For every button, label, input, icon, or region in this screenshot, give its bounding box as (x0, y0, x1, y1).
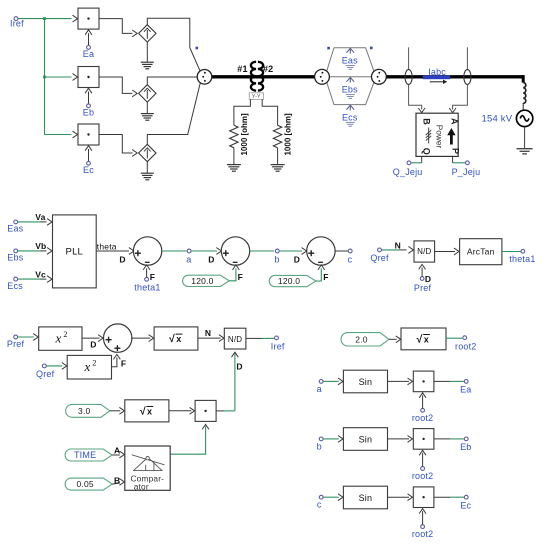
svg-text:x: x (83, 359, 90, 374)
svg-text:theta: theta (97, 242, 117, 252)
svg-text:Eas: Eas (342, 56, 358, 66)
svg-text:Eas: Eas (7, 224, 23, 234)
svg-text:P_Jeju: P_Jeju (452, 167, 481, 177)
svg-text:B: B (114, 475, 120, 485)
svg-text:Ea: Ea (83, 49, 94, 59)
svg-text:1000 [ohm]: 1000 [ohm] (240, 113, 249, 156)
svg-text:D: D (208, 254, 214, 264)
svg-text:theta1: theta1 (134, 282, 160, 292)
svg-text:√: √ (417, 334, 423, 346)
svg-text:Sin: Sin (359, 435, 373, 445)
svg-text:154 kV: 154 kV (482, 113, 513, 124)
svg-text:Ec: Ec (83, 165, 94, 175)
svg-text:Y-Y: Y-Y (252, 94, 261, 100)
svg-text:Q: Q (422, 148, 432, 155)
svg-text:a: a (317, 384, 322, 394)
svg-text:b: b (274, 254, 279, 264)
svg-text:Eb: Eb (460, 442, 471, 452)
svg-text:c: c (317, 500, 322, 510)
svg-text:P: P (451, 148, 461, 154)
svg-text:Iref: Iref (10, 19, 24, 29)
svg-text:Ebs: Ebs (7, 253, 23, 263)
svg-text:Q_Jeju: Q_Jeju (393, 167, 423, 177)
svg-text:N: N (205, 328, 211, 338)
svg-text:b: b (317, 441, 322, 451)
svg-text:root2: root2 (412, 413, 434, 423)
svg-text:D: D (236, 361, 242, 371)
svg-text:A: A (114, 445, 120, 455)
svg-text:Ecs: Ecs (7, 281, 23, 291)
svg-text:Sin: Sin (359, 493, 373, 503)
svg-text:F: F (323, 272, 328, 282)
svg-text:0.05: 0.05 (76, 479, 93, 489)
svg-text:theta1: theta1 (509, 254, 535, 264)
svg-text:2.0: 2.0 (355, 334, 367, 344)
svg-text:1000 [ohm]: 1000 [ohm] (284, 113, 293, 156)
svg-text:Va: Va (35, 212, 45, 222)
svg-text:Vb: Vb (35, 241, 46, 251)
svg-text:Pref: Pref (414, 283, 432, 293)
svg-text:#1: #1 (237, 64, 247, 74)
svg-text:D: D (294, 254, 300, 264)
svg-text:x: x (424, 334, 429, 344)
svg-text:Eb: Eb (83, 108, 94, 118)
svg-text:D: D (119, 254, 125, 264)
svg-text:Ecs: Ecs (342, 112, 358, 122)
svg-text:c: c (348, 254, 353, 264)
svg-text:root2: root2 (412, 471, 434, 481)
svg-text:root2: root2 (412, 529, 434, 539)
svg-text:#2: #2 (263, 64, 273, 74)
svg-text:√: √ (140, 405, 146, 417)
svg-text:D: D (90, 340, 96, 350)
svg-text:Pref: Pref (7, 339, 25, 349)
svg-text:Ea: Ea (460, 385, 471, 395)
svg-text:Ebs: Ebs (342, 85, 358, 95)
svg-text:N/D: N/D (417, 247, 431, 256)
svg-text:Iref: Iref (271, 342, 285, 352)
svg-text:2: 2 (63, 330, 67, 339)
svg-text:Sin: Sin (359, 377, 373, 387)
svg-text:ArcTan: ArcTan (467, 247, 495, 257)
svg-text:x: x (176, 334, 181, 344)
svg-text:3.0: 3.0 (78, 406, 90, 416)
svg-text:Iabc: Iabc (428, 67, 446, 77)
svg-text:a: a (186, 254, 191, 264)
svg-text:ator: ator (134, 481, 149, 491)
svg-text:Ec: Ec (460, 500, 471, 510)
svg-text:Power: Power (435, 125, 445, 149)
svg-text:B: B (421, 118, 431, 125)
svg-text:Qref: Qref (36, 369, 55, 379)
svg-text:F: F (121, 359, 126, 369)
svg-text:A: A (449, 118, 459, 125)
svg-text:PLL: PLL (66, 246, 84, 257)
svg-text:TIME: TIME (74, 450, 96, 460)
svg-text:2: 2 (92, 359, 96, 368)
svg-text:x: x (147, 406, 152, 416)
svg-text:120.0: 120.0 (278, 276, 300, 286)
svg-text:Vc: Vc (35, 269, 46, 279)
svg-text:F: F (238, 272, 243, 282)
svg-text:N: N (395, 240, 401, 250)
svg-text:Qref: Qref (370, 253, 389, 263)
svg-text:root2: root2 (455, 341, 477, 351)
svg-text:N/D: N/D (228, 335, 242, 344)
svg-text:F: F (150, 272, 155, 282)
svg-text:120.0: 120.0 (191, 276, 213, 286)
svg-text:√: √ (169, 333, 175, 345)
svg-text:x: x (54, 331, 61, 346)
